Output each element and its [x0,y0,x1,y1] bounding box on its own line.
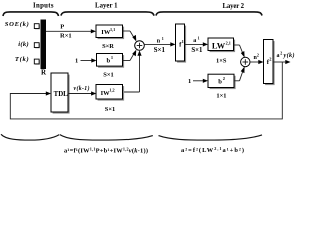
svg-text:1: 1 [111,55,113,60]
svg-text:S×1: S×1 [154,46,166,54]
svg-text:a²=f²(LW2,1a¹+b²): a²=f²(LW2,1a¹+b²) [181,146,244,154]
svg-text:Inputs: Inputs [33,2,54,9]
svg-text:1: 1 [198,35,200,40]
svg-text:a: a [193,38,196,44]
svg-text:1: 1 [75,58,78,65]
svg-text:SOE(k): SOE(k) [5,21,29,28]
svg-text:1: 1 [188,78,191,85]
svg-text:2,1: 2,1 [226,41,231,46]
svg-text:1,2: 1,2 [109,88,114,93]
svg-text:LW: LW [212,41,226,50]
svg-text:2: 2 [269,57,271,62]
svg-text:S×1: S×1 [191,47,203,54]
svg-text:1: 1 [162,36,164,41]
svg-text:1×1: 1×1 [216,93,226,100]
svg-text:TDL: TDL [54,91,69,98]
svg-text:1×S: 1×S [216,57,227,64]
svg-text:v(k-1): v(k-1) [74,85,90,92]
svg-text:i(k): i(k) [18,41,29,48]
svg-text:2: 2 [223,76,225,81]
svg-text:Layer 1: Layer 1 [95,3,118,10]
svg-text:Layer 2: Layer 2 [223,3,245,10]
svg-text:b: b [107,57,111,64]
svg-text:P: P [60,23,64,30]
svg-text:S×R: S×R [102,43,114,50]
svg-text:R×1: R×1 [60,33,72,40]
svg-text:1: 1 [182,39,184,44]
svg-text:a¹=f¹(IW1,1P+b¹+IW1,2v(k-1)): a¹=f¹(IW1,1P+b¹+IW1,2v(k-1)) [64,147,148,155]
svg-text:2: 2 [280,51,282,56]
svg-text:S×1: S×1 [105,106,115,113]
svg-text:b: b [218,79,222,86]
svg-text:2: 2 [257,52,259,57]
svg-text:T(k): T(k) [15,56,29,63]
svg-text:y(k): y(k) [283,52,295,59]
svg-text:a: a [277,53,280,59]
svg-text:S×1: S×1 [103,71,113,78]
svg-text:1,1: 1,1 [110,27,115,32]
